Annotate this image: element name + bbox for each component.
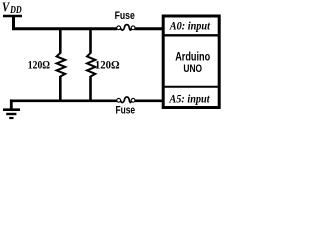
svg-text:UNO: UNO: [183, 63, 202, 75]
fuse F2 right terminal: [131, 98, 135, 102]
VDD terminal bar: [3, 15, 22, 18]
wire resistor R1 top lead: [59, 29, 62, 54]
svg-text:Arduino: Arduino: [175, 51, 210, 63]
fuse F1 left terminal: [117, 26, 121, 30]
wire resistor R1 bottom lead: [59, 76, 62, 101]
resistor R2: [87, 53, 95, 77]
svg-text:Fuse: Fuse: [115, 10, 135, 22]
wire ground stem: [10, 99, 13, 109]
svg-text:120Ω: 120Ω: [28, 58, 51, 72]
fuse F2 left terminal: [117, 98, 121, 102]
op block Arduino UNO box: [163, 16, 219, 108]
wire bottom rail right: [135, 100, 164, 103]
fuse F1 right terminal: [131, 26, 135, 30]
pin A5 divider: [162, 86, 221, 88]
wire top rail right: [135, 27, 164, 30]
wire bottom rail left: [11, 100, 117, 103]
wire resistor R2 bottom lead: [89, 76, 92, 101]
ground: [3, 110, 20, 118]
resistor R1: [57, 53, 66, 77]
wire top rail left: [12, 27, 117, 30]
wire VDD stub: [12, 16, 15, 29]
svg-text:120Ω: 120Ω: [95, 58, 120, 72]
svg-text:A0: input: A0: input: [169, 20, 211, 32]
wire resistor R2 top lead: [89, 29, 92, 54]
fuse F1 element: [121, 25, 132, 30]
svg-text:A5: input: A5: input: [169, 94, 211, 106]
svg-text:Fuse: Fuse: [116, 105, 136, 117]
pin A0 divider: [162, 34, 221, 36]
svg-text:DD: DD: [9, 5, 22, 16]
fuse F2 element: [121, 97, 132, 102]
